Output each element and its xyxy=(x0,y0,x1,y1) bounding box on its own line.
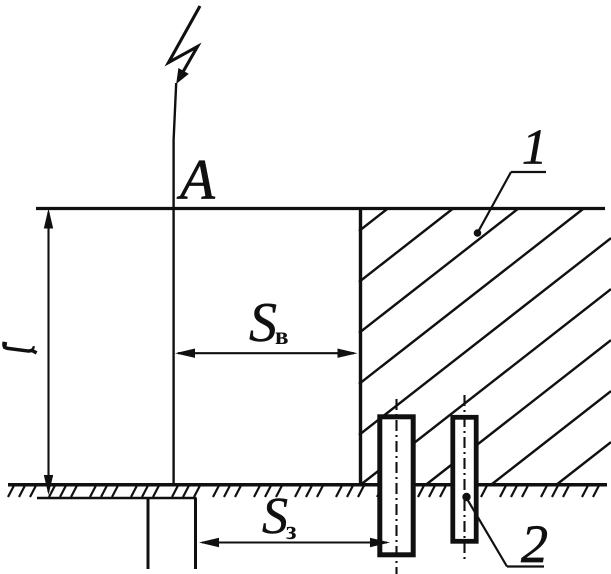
dimension Sv line xyxy=(175,349,358,358)
electrode rect right xyxy=(453,417,476,541)
dimension l line xyxy=(44,209,53,496)
lightning rod mast xyxy=(174,83,177,486)
building hatched wall xyxy=(359,208,611,485)
svg-text:з: з xyxy=(286,516,296,545)
label 1 leader xyxy=(474,172,546,237)
buried conductor line xyxy=(37,497,197,500)
electrode centerline left xyxy=(395,399,397,574)
svg-text:S: S xyxy=(249,292,277,354)
label 2 leader xyxy=(462,493,544,567)
lightning stroke arrow xyxy=(169,6,201,84)
ground surface line xyxy=(8,483,607,487)
dimension l label xyxy=(4,342,37,353)
dimension Sz line xyxy=(199,538,390,547)
rod foundation right leg xyxy=(194,498,197,569)
electrode rect left (white over hatch) xyxy=(380,417,413,555)
svg-text:S: S xyxy=(262,488,288,545)
rod foundation left leg xyxy=(147,498,150,569)
svg-text:1: 1 xyxy=(522,119,547,175)
electrode centerline right xyxy=(463,395,465,562)
svg-text:A: A xyxy=(176,149,216,212)
building left edge xyxy=(359,207,362,486)
ground hatch ticks xyxy=(8,486,599,498)
protection zone top line xyxy=(36,207,605,210)
svg-text:2: 2 xyxy=(521,514,548,574)
svg-text:в: в xyxy=(275,323,289,350)
